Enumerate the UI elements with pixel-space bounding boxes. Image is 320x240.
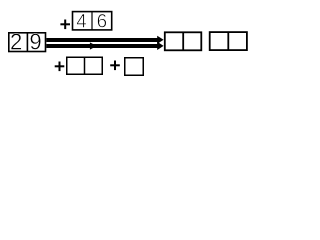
svg-text:9: 9 [29,29,41,55]
arrowhead upper (at result box A) [157,36,163,44]
arrowhead lower (at result box A) [157,42,163,50]
result box B (empty, two cells) [210,32,247,50]
svg-text:4: 4 [76,10,87,32]
svg-text:2: 2 [10,29,22,55]
wire: lower arrow shaft [46,44,158,48]
bottom step box 2 (empty, single cell) [125,58,144,76]
result box A (empty, two cells) [165,32,202,50]
bottom step box 1 (empty, two cells) [67,57,103,74]
wire: upper arrow shaft [46,38,158,42]
plus sign bottom-left [55,62,65,72]
arrowhead mid (on lower wire) [90,42,97,49]
addend box 46 [73,12,112,30]
plus sign top (before 46 box) [60,20,70,30]
svg-text:6: 6 [97,10,108,32]
plus sign bottom-right [110,61,120,71]
start box 29 [9,33,46,52]
